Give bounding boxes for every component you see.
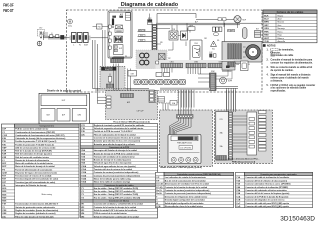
relay box with X [116,25,123,29]
transformer TR1 box [169,31,178,40]
svg-text:C105: C105 [194,43,198,45]
svg-text:conocer los requisitos de alim: conocer los requisitos de alimentación. [271,62,314,65]
svg-text:Conexión para componentes opci: Conexión para componentes opcionales [260,173,296,176]
fuse F1U [97,24,103,29]
wires down into controller panel [177,90,179,115]
top right thin box [126,13,131,20]
Advanced Plus PCB body [216,112,229,161]
control box sub-box 2 [57,109,70,122]
svg-text:Diseño de la caja de control: Diseño de la caja de control [47,88,82,92]
svg-text:Contacto de ventana (suministr: Contacto de ventana (suministro independ… [94,171,139,174]
svg-text:X1M: X1M [84,44,88,46]
svg-text:Interruptor del flotador de dr: Interruptor del flotador de drenaje de l… [94,149,138,152]
control PCB bottom connector strips [156,60,234,69]
svg-text:Filtro de ruido (núcleo de fer: Filtro de ruido (núcleo de ferrita) Z1C-… [15,215,54,218]
svg-text:BRN: BRN [264,22,269,24]
svg-text:Varistor de protección contra: Varistor de protección contra sobretensi… [15,206,55,209]
fan connector gray tab below box [222,62,235,71]
connector CN8 [188,27,195,30]
comb connector under power PCB [111,59,124,63]
control box sub-box 1 [41,109,55,122]
svg-text:Azul: Azul [278,18,283,21]
svg-text:Z1C: Z1C [168,58,171,60]
svg-text:drenaje E1H: drenaje E1H [105,69,112,71]
svg-text:BLK: BLK [232,30,235,32]
svg-text:Fusible de la PCB de control T: Fusible de la PCB de control T 6,3 A 250… [94,130,133,133]
svg-text:3D150463D: 3D150463D [280,215,315,222]
power supply dashed box [38,30,45,37]
svg-text:Reactor de la fuente de alimen: Reactor de la fuente de alimentación [15,159,50,162]
svg-text:Contacto de la bomba de drenaj: Contacto de la bomba de drenaje de la un… [94,206,137,209]
svg-text:Filtro de ruido (núcleo de fer: Filtro de ruido (núcleo de ferrita) de l… [94,133,137,136]
right terminal cells group B [259,134,267,137]
svg-text:COD. 4P713 98C: COD. 4P713 98C [180,147,191,149]
contact box with bars [115,29,123,33]
NOTAS heading [263,44,266,47]
wires from T1R down to PCB strips [172,42,174,51]
svg-text:Señal de unidad 0-10 V del mot: Señal de unidad 0-10 V del motor del ven… [94,209,138,212]
thermistor component [255,31,261,38]
svg-text:Mando a distancia - FWECSA (op: Mando a distancia - FWECSA (opción) (not… [160,166,202,169]
gray bar under tab [222,70,231,72]
mini option dashed box [156,91,179,104]
SW blocks row [156,73,162,77]
control box layout outer box [39,93,90,124]
svg-text:Gris: Gris [278,24,282,27]
power PCB A1P [108,11,132,58]
svg-text:X9A: X9A [81,162,85,165]
wires from EMI patch down [127,69,129,91]
svg-text:Válvula de expansión electróni: Válvula de expansión electrónica de la u… [94,127,144,130]
svg-text:Termistor del aire de retorno: Termistor del aire de retorno de la unid… [94,168,133,171]
svg-text:X12A: X12A [81,171,86,174]
svg-text:PCB: PCB [156,206,161,208]
svg-text:Conector del cable del panel B: Conector del cable del panel BYCQ (A1) o… [245,205,289,208]
svg-text:Transformador de alimentación: Transformador de alimentación 220-240 V/… [15,203,59,206]
svg-text:especificadas.: especificadas. [271,91,287,93]
wires to drain heater panel [102,30,104,66]
svg-text:Termistor (aire de retorno de: Termistor (aire de retorno de la unidad) [15,175,51,178]
svg-text:LTB: LTB [220,119,223,121]
wires down to Advanced Plus controller [226,88,228,112]
main bus wire across top [156,22,262,24]
svg-text:J1 J2: J1 J2 [209,52,213,54]
svg-text:RED: RED [264,35,269,37]
transformer winding symbols [114,36,123,43]
svg-text:a distancia.: a distancia. [271,79,284,82]
fan wires inside panel [170,118,179,134]
fuse dark bar [112,19,114,26]
svg-text:BLU: BLU [264,19,269,21]
svg-text:Condensador de funcionamiento: Condensador de funcionamiento (FWC-DF) [15,131,55,134]
lower component box [114,45,124,55]
bottom table external controller [156,172,234,207]
label box above panel [170,101,177,106]
svg-text:YLW: YLW [264,41,269,43]
svg-text:C1P C2P: C1P C2P [136,111,144,113]
svg-text:WHT: WHT [264,38,269,40]
fan option plug box [241,61,249,71]
svg-text:Naranja: Naranja [278,27,286,30]
svg-text:PNK: PNK [264,31,269,33]
svg-text:Rosa: Rosa [278,31,284,33]
svg-text:BLK: BLK [264,15,269,17]
indoor unit dashed enclosure [66,10,262,92]
svg-text:Blanco: Blanco [278,38,285,40]
svg-text:Relé del calentador de drenaje: Relé del calentador de drenaje (opción) [15,153,52,156]
svg-text:FWC-DF: FWC-DF [3,3,13,9]
relay box K2R [128,71,137,77]
svg-text:de opción de cambio.: de opción de cambio. [271,70,294,72]
svg-text:CN30: CN30 [194,62,198,64]
svg-text:Y2A: Y2A [236,179,240,182]
small connector block below relays [149,90,155,103]
svg-text:BLK: BLK [140,40,143,42]
supply wires to unit [45,32,49,34]
svg-text:Disyuntor de fugas a tierra (s: Disyuntor de fugas a tierra (suministro … [15,171,57,174]
svg-text:Motor de la bomba de drenaje d: Motor de la bomba de drenaje de la unida… [15,165,55,168]
svg-text:Motor del ventilador de la uni: Motor del ventilador de la unidad interi… [15,162,53,165]
earth symbol inside unit [68,19,73,24]
controller comb connector [177,115,194,119]
right terminal cells group A [259,111,267,114]
E1H resistor symbol [108,77,112,83]
svg-text:X11A: X11A [81,168,86,171]
left edge cell column [109,25,112,28]
capsule capacitor C1 [243,28,248,39]
bottom table optional components [236,172,313,207]
title underline [118,7,178,9]
svg-text:Consulte el manual de instalac: Consulte el manual de instalación para [271,59,313,62]
svg-text:Pieza de fábrica / WECSF (opci: Pieza de fábrica / WECSF (opción) (nota … [113,120,150,123]
svg-text:PCB de control de la unidad in: PCB de control de la unidad interior [94,212,127,215]
control box sub-box 3 [72,109,86,122]
svg-text:GRY: GRY [264,25,269,27]
dark connector mark [226,66,230,69]
svg-text:Colores de los cables: Colores de los cables [277,10,304,14]
wires down into Advanced Plus panel [226,90,228,112]
svg-text:Amarillo: Amarillo [278,40,286,43]
svg-text:Actuador para válvulas de dos: Actuador para válvulas de dos y tres vía… [94,140,141,143]
wire colour tags BLU BLK [228,30,231,32]
svg-text:ORG: ORG [264,28,269,30]
svg-text:Conector de la PCB de la bomba: Conector de la PCB de la bomba SL N (opc… [245,195,288,198]
svg-text:Válvula de agua caliente de tr: Válvula de agua caliente de tres vías (o… [94,165,136,168]
svg-text:CnA: CnA [236,195,241,198]
svg-text:1N~: 1N~ [39,28,42,30]
svg-text:Conector del kit de válvula a: Conector del kit de válvula a 2 tubos (o… [245,179,287,182]
svg-text:X6A: X6A [81,152,85,155]
factory option panel Pieza de fabrica [106,91,158,120]
terminal column box [247,112,257,155]
float switch circle [220,77,227,84]
svg-text:X15A: X15A [81,181,86,184]
wires dropping from CN strips [161,68,163,73]
svg-text:BLU: BLU [228,30,231,32]
svg-text:CnD: CnD [236,206,241,208]
svg-text:X10A: X10A [81,165,86,168]
svg-text:externo para el cableado del m: externo para el cableado del mando [271,76,310,79]
svg-text:M4S: M4S [2,196,7,199]
svg-text:CN2: CN2 [204,38,207,40]
Advanced Plus controller dashed panel [215,110,273,164]
svg-text:Fusible de protección T 3,15 A: Fusible de protección T 3,15 A 250 V (no… [15,140,56,143]
PCB edge connector ladder [228,112,232,160]
wires from comb down to factory panel [113,64,115,91]
svg-text:tierra: tierra [68,25,72,28]
svg-text:S1L: S1L [217,40,220,42]
svg-text:Interruptor del flotador de dr: Interruptor del flotador de drenaje [15,184,47,187]
svg-text:CN21: CN21 [170,62,174,64]
svg-text:X13A: X13A [81,174,86,177]
svg-text:Termistor (gas del intercambia: Termistor (gas del intercambiador de cal… [15,181,55,184]
svg-text:Condensador de funcionamiento: Condensador de funcionamiento del motor … [15,134,64,137]
svg-text:Fuente de alimentación de conm: Fuente de alimentación de conmutación [15,168,53,171]
svg-text:Regleta de terminales (fuente: Regleta de terminales (fuente de aliment… [15,209,58,212]
fan motor PCB gray box [222,42,262,63]
svg-text:X2M: X2M [211,71,215,73]
terminal block X1M [70,36,91,41]
svg-text:Contacto de presencia (suminis: Contacto de presencia (suministro indepe… [94,174,141,177]
svg-text:Actuador para válvula de agua: Actuador para válvula de agua fría y cal… [94,143,136,146]
svg-text:Fusible de protección T 5 A 25: Fusible de protección T 5 A 250 V (nota … [15,143,54,146]
svg-text:Calentador de drenaje (kit de: Calentador de drenaje (kit de componente… [15,137,65,140]
fan motor M1F [246,45,261,60]
svg-text:Bomba de drenaje de la PCB de: Bomba de drenaje de la PCB de la unidad … [94,152,140,155]
drain pump motor M1P [234,16,241,23]
svg-text:HAP: HAP [2,146,7,149]
svg-text:Negro: Negro [278,14,285,17]
controller unit body [168,135,201,164]
svg-text:Termistor del ventilador de la: Termistor del ventilador de la unidad in… [94,155,135,158]
svg-text:PS: PS [125,56,127,58]
controller buttons [171,157,176,162]
svg-text:Mando a distancia Advanced Plu: Mando a distancia Advanced Plus - [228,158,260,161]
wires from mini box to controller panel [162,103,164,110]
control box PCB area [41,95,87,106]
svg-text:a las opciones de válvulas Dai: a las opciones de válvulas Daikin [271,88,307,90]
relay row rounded boxes [134,80,141,85]
svg-text:CN8: CN8 [190,25,193,27]
svg-text:ELP: ELP [119,48,122,50]
rectifier diode box [181,31,188,40]
svg-text:FWEC3A (opción) (nota 4): FWEC3A (opción) (nota 4) [232,160,256,163]
svg-text:R1T: R1T [256,29,259,31]
svg-text:Siga el manual del mando a dis: Siga el manual del mando a distancia [271,74,312,77]
svg-text:Motor del ventilador para la r: Motor del ventilador para la rejilla swi… [94,177,132,180]
top connector marks [113,16,116,18]
relay contact stack K1R [148,20,153,22]
connector strip on power PCB [152,25,157,69]
bundle from X2M to Advanced Plus wires [216,86,238,88]
fan connector hatched strips [228,44,229,60]
wire to plug box [235,63,241,65]
svg-text:BLU: BLU [140,35,143,37]
connector X15A trio [213,27,216,32]
wires down to wired remote controller [181,90,183,108]
svg-text:Relé del motor del ventilador: Relé del motor del ventilador interior [15,156,49,159]
svg-text:Marrón: Marrón [278,21,285,24]
svg-text:X5A: X5A [81,149,85,152]
svg-text:PCB de control de la unidad in: PCB de control de la unidad interior [15,128,48,131]
earth triangle symbol [211,41,217,47]
svg-text:LED de servicio (monitor de se: LED de servicio (monitor de servicio ver… [15,146,55,149]
mains wires to PCB and down to control box [91,37,109,39]
bus drop wires [171,25,173,33]
legend table left half [2,124,80,218]
svg-text:Termistor (líquido del interca: Termistor (líquido del intercambiador de… [15,178,58,181]
svg-text:Sólo se conecta cuando se util: Sólo se conecta cuando se utiliza el kit [271,66,313,69]
svg-text:Diagrama de cableado: Diagrama de cableado [121,2,179,8]
svg-text:Detección de refrigerante de l: Detección de refrigerante de la unidad i… [165,195,208,198]
terminal block X2M [210,73,217,91]
svg-text:Señal de refrigeración y calef: Señal de refrigeración y calefacción de … [94,215,140,218]
svg-text:NOTAS: NOTAS [267,45,276,48]
controller display [171,136,198,141]
svg-text:Regleta de terminales portátil: Regleta de terminales portátil SV, termi… [94,124,145,127]
svg-text:S1L: S1L [212,49,215,51]
capacitor block C105 [190,40,202,61]
supply bracket [43,32,45,41]
dark bottom bar [114,57,125,59]
gray bundle along bottom [160,88,210,90]
svg-text:GRN/YLW: GRN/YLW [138,30,145,32]
svg-text:Controlador remoto externo (FW: Controlador remoto externo (FWECSA/FWEC3… [177,173,221,176]
bottom comb of PCB [217,156,227,161]
svg-text:X7A: X7A [81,155,85,158]
svg-text:Bus de red de comunicación del: Bus de red de comunicación del controlad… [165,179,206,182]
svg-text:X14A: X14A [81,177,86,180]
legend table right half [81,124,158,219]
svg-text:FCCSA y FCCFA solo se pueden c: FCCSA y FCCFA solo se pueden conectar [271,84,316,87]
wires from ladder to terminal columns [233,115,247,117]
E1H comb connector [106,84,114,87]
svg-text:Conexión de la alimentación el: Conexión de la alimentación eléctrica de… [94,137,141,140]
line filter Z1C/Z2C gray patch [136,50,167,69]
svg-text:Regleta de terminales (cablead: Regleta de terminales (cableado de contr… [15,212,56,215]
fuse marks on supply wires [50,35,53,38]
drain heater option panel E1H [100,66,125,89]
svg-text:X8A: X8A [81,159,85,162]
svg-text:Motor swing: Motor swing [42,193,52,196]
svg-text:Electroválvula a fase de la un: Electroválvula a fase de la unidad inter… [165,205,203,208]
factory panel left terminal cells [107,96,112,99]
wires into connector strip with colour labels [138,31,153,33]
controller code box [179,146,193,150]
svg-text:M: M [252,51,254,54]
wired remote controller dashed panel [160,110,213,167]
svg-text:F2U: F2U [160,42,163,44]
earth circle at power entry [37,41,42,46]
svg-text:conector,: conector, [271,51,281,54]
E1H dark header label [101,67,116,71]
wire colour table [263,10,317,43]
svg-text:Z1C: Z1C [2,216,6,218]
svg-text:Conexión del ventilador y seña: Conexión del ventilador y señal ECO DC d… [94,203,144,206]
jumper blocks [210,54,213,57]
factory panel connector strip [121,94,134,98]
svg-text:Motor de la rejilla de oscilac: Motor de la rejilla de oscilación (swing… [94,181,130,184]
svg-text:S1PF: S1PF [228,81,232,83]
svg-text:FWC-DT: FWC-DT [3,8,13,14]
